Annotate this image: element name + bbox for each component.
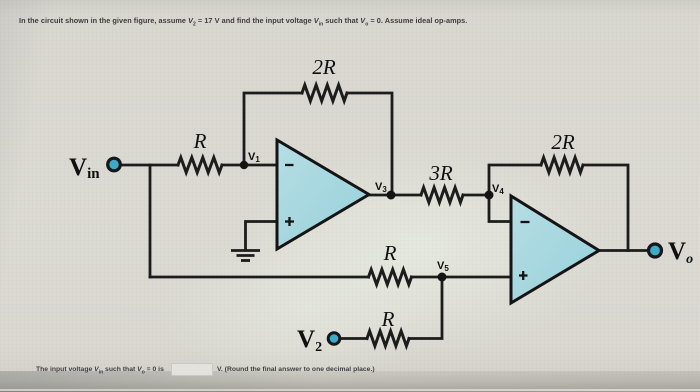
wire R bottom up to V5 — [409, 277, 442, 339]
svg-text:V3: V3 — [375, 181, 387, 194]
svg-text:R: R — [193, 129, 207, 153]
wire op-amp1 + input to ground — [246, 222, 278, 251]
node V1 dot — [240, 161, 248, 169]
wire R1 to op-amp1 inverting input — [222, 164, 277, 167]
terminal V2 — [328, 333, 340, 345]
op-amp U2 plus — [519, 271, 528, 280]
svg-text:V5: V5 — [437, 260, 449, 273]
resistor R bottom — [367, 331, 409, 346]
wire V5 to op-amp2 + input — [412, 276, 513, 279]
op-amp U2 minus — [521, 221, 530, 223]
resistor R mid — [369, 270, 412, 285]
wire feedback1 right leg down to V3 — [347, 93, 392, 195]
svg-text:V1: V1 — [248, 151, 260, 164]
svg-text:Vo: Vo — [668, 238, 693, 267]
node V4 dot — [485, 191, 494, 200]
resistor R1 (input R) — [178, 158, 222, 173]
wire V2 terminal to R bottom — [340, 337, 367, 340]
wire 3R to V4 node — [463, 194, 489, 197]
resistor 2R feedback1 — [302, 85, 347, 101]
answer input box — [171, 363, 213, 376]
op-amp U1 plus — [285, 217, 294, 226]
svg-text:R: R — [381, 307, 395, 331]
terminal Vin — [108, 158, 121, 171]
resistor 2R feedback2 — [541, 158, 583, 173]
wire feedback1 loop — [244, 93, 302, 165]
op-amp U1 minus — [285, 164, 294, 166]
op-amp U2 — [511, 196, 599, 303]
wire V4 down to op-amp2 inverting input — [489, 195, 511, 222]
svg-text:V2: V2 — [297, 326, 322, 355]
svg-text:R: R — [383, 241, 397, 265]
wire bottom path to V5 and op-amp2 + input — [150, 276, 369, 279]
wire op-amp2 output to Vo terminal — [599, 249, 648, 252]
node V5 dot — [438, 273, 447, 282]
wire branch Vin node down — [149, 165, 152, 277]
resistor 3R — [421, 188, 463, 203]
ground — [231, 251, 260, 261]
node V3 dot — [387, 191, 396, 200]
wire Vin to resistor R1 — [120, 164, 178, 167]
op-amp U1 — [277, 140, 369, 249]
svg-text:V4: V4 — [492, 183, 504, 196]
svg-text:2R: 2R — [312, 55, 336, 79]
svg-text:2R: 2R — [551, 130, 575, 154]
terminal Vo — [649, 244, 662, 257]
wire op-amp1 output to V3 and on to 3R — [369, 194, 421, 197]
wire V4 up to feedback2 — [489, 165, 541, 195]
svg-text:Vin: Vin — [69, 154, 100, 182]
svg-text:3R: 3R — [428, 161, 453, 185]
wire feedback2 right leg down to output — [583, 165, 628, 251]
